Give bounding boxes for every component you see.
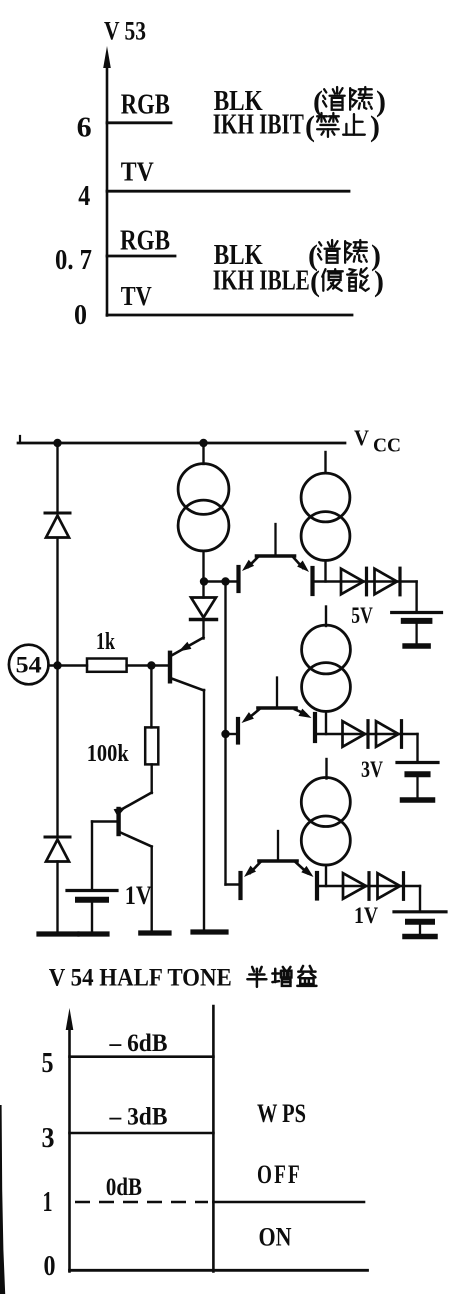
wire base node to R2 [150, 666, 152, 728]
transistor Q1 collector [172, 679, 205, 691]
battery B5 5V [415, 582, 417, 612]
hanzi neng [347, 268, 369, 291]
svg-text:100k: 100k [87, 741, 130, 767]
svg-text:ON: ON [259, 1223, 292, 1252]
hanzi xiao 2 [318, 240, 340, 263]
level line 0 baseline [107, 314, 352, 317]
resistor R1 1k [87, 659, 127, 672]
svg-text:IKH IBLE: IKH IBLE [213, 266, 310, 297]
wire R2 to Q2 [150, 764, 152, 793]
hanzi yin 1 [350, 87, 372, 110]
wire Q2 base to battery [92, 820, 119, 822]
svg-text:5: 5 [42, 1047, 54, 1079]
axis V53 vertical with arrow [106, 60, 109, 316]
dual transistor pair P3 [277, 831, 279, 861]
junction dot rail center [199, 439, 207, 447]
resistor R2 100k [145, 727, 158, 764]
dual transistor pair P1 [274, 524, 276, 556]
graph baseline [70, 1269, 368, 1272]
svg-text:– 3dB: – 3dB [109, 1104, 168, 1131]
ground Q2 collector [141, 930, 169, 935]
level line 1 solid right [213, 1201, 364, 1204]
hanzi zhi [343, 114, 365, 135]
svg-text:1: 1 [43, 1186, 53, 1218]
svg-text:1V: 1V [125, 881, 152, 910]
hanzi ban [247, 967, 266, 987]
svg-text:3: 3 [42, 1122, 55, 1154]
battery B1 1V [67, 889, 117, 892]
hanzi jin [317, 113, 339, 137]
svg-text:CC: CC [373, 435, 401, 457]
node wire row1 left [204, 580, 239, 582]
svg-text:1V: 1V [354, 903, 378, 928]
svg-text:TV: TV [121, 157, 154, 187]
level line 5 [70, 1055, 214, 1058]
svg-text:): ) [370, 110, 380, 143]
svg-text:(: ( [305, 110, 315, 143]
diode D9 [378, 873, 401, 899]
svg-text:3V: 3V [361, 757, 383, 782]
dual transistor pair P2 [276, 678, 278, 709]
pin 54 terminal circle [9, 645, 49, 685]
wire row3 [317, 885, 420, 887]
wire row2 [315, 733, 418, 735]
svg-text:6: 6 [77, 112, 92, 144]
diode D3 [191, 598, 216, 618]
diode D5 [375, 569, 398, 595]
Vcc rail wire [18, 442, 345, 445]
junction dot node A1 [200, 577, 208, 585]
ground Q1 collector [193, 929, 226, 934]
wire row1 [313, 580, 417, 582]
transistor Q1 emitter [172, 638, 204, 656]
current source CS2 [324, 452, 326, 473]
svg-text:4: 4 [78, 180, 90, 212]
svg-text:0: 0 [74, 299, 87, 331]
svg-text:TV: TV [121, 281, 152, 311]
junction dot bus row2 [221, 730, 229, 738]
hanzi xiao 1 [323, 87, 345, 110]
level line 3 [70, 1132, 214, 1135]
svg-text:): ) [374, 265, 384, 298]
svg-text:0dB: 0dB [106, 1174, 142, 1201]
svg-text:1k: 1k [96, 629, 115, 655]
axis V54 vertical with arrow [68, 1022, 71, 1272]
junction dot base node [147, 661, 155, 669]
graph vertical divider [212, 1006, 215, 1272]
svg-text:RGB: RGB [120, 226, 170, 257]
wire R1 to Q1 base [127, 664, 168, 666]
svg-text:0: 0 [44, 1250, 56, 1282]
diode D8 [343, 873, 366, 899]
wire left rail lower [56, 862, 58, 932]
svg-text:– 6dB: – 6dB [109, 1030, 168, 1057]
svg-text:5V: 5V [351, 603, 373, 628]
diode D1 clamp upper [45, 512, 70, 515]
transistor Q2 emitter [121, 793, 152, 811]
current source CS3 [325, 607, 327, 627]
svg-text:0. 7: 0. 7 [55, 244, 92, 276]
current source CS4 [325, 759, 327, 779]
level line 0.7 [107, 255, 175, 258]
svg-text:W PS: W PS [257, 1099, 306, 1128]
level line 4 [107, 190, 349, 193]
hanzi yin 2 [345, 240, 367, 263]
wire D3 to node [202, 552, 204, 598]
hanzi zeng [272, 967, 291, 986]
junction dot node A2 [221, 577, 229, 585]
svg-text:RGB: RGB [121, 90, 170, 121]
diode D2 clamp lower [45, 836, 70, 839]
svg-text:V 54 HALF TONE: V 54 HALF TONE [49, 965, 232, 992]
svg-text:OFF: OFF [257, 1160, 302, 1189]
svg-text:V 53: V 53 [104, 17, 146, 46]
svg-text:V: V [354, 425, 369, 450]
svg-text:54: 54 [16, 653, 43, 678]
transistor Q2 base bar [116, 809, 120, 834]
svg-text:IKH IBIT: IKH IBIT [213, 110, 304, 141]
transistor Q2 collector [121, 833, 152, 847]
wire bus to hump3 [226, 883, 241, 885]
ground battery B1 [80, 931, 107, 936]
junction dot pin54 node [53, 661, 61, 669]
battery B2 1V [419, 886, 421, 911]
transistor Q1 base bar [168, 653, 172, 682]
current source CS1 [202, 443, 204, 464]
scan artifact left edge [0, 1105, 5, 1294]
hanzi yi [297, 966, 316, 986]
diode D4 [341, 569, 364, 595]
battery B3 3V [416, 734, 418, 761]
ground left rail [39, 931, 77, 936]
wire bus to hump2 [226, 733, 239, 735]
svg-text:(: ( [310, 265, 320, 298]
hanzi shi [322, 269, 343, 291]
bus wire vertical [224, 582, 226, 885]
level line 1 dashed [75, 1201, 208, 1204]
wire pin54 to R1 [49, 664, 88, 666]
diode D6 [343, 721, 366, 747]
wire left rail middle [56, 538, 58, 837]
diode D7 [376, 721, 399, 747]
junction dot rail left [53, 439, 61, 447]
level line 6 [107, 121, 171, 124]
wire left rail upper [56, 443, 58, 513]
